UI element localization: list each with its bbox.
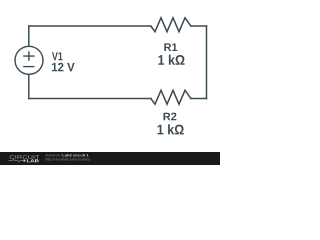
V1 plus sign bbox=[24, 52, 34, 60]
CircuitLab logo LAB text bbox=[27, 159, 39, 162]
label 12 V bbox=[52, 63, 75, 71]
footer url line bbox=[46, 158, 91, 161]
CircuitLab logo mark bbox=[23, 160, 25, 162]
wire left vertical lower (V1 bottom to bottom wire) bbox=[28, 74, 30, 98]
label R1 bbox=[164, 43, 177, 51]
label R2 value 1 kOhm bbox=[158, 124, 184, 134]
wire right vertical (R1 to R2) bbox=[206, 26, 208, 99]
wire bottom from V1 to R2 bbox=[29, 98, 151, 100]
CircuitLab logo waveform bbox=[8, 159, 23, 162]
resistor R2 bbox=[151, 90, 191, 104]
label R2 bbox=[164, 113, 177, 121]
resistor R1 bbox=[151, 18, 191, 32]
V1 minus sign bbox=[24, 66, 34, 68]
voltage source V1 circle bbox=[15, 46, 43, 74]
label R1 value 1 kOhm bbox=[158, 55, 184, 65]
wire top from V1 to R1 bbox=[29, 25, 151, 27]
label V1 bbox=[52, 52, 63, 60]
wire left vertical upper (V1 top to top wire) bbox=[28, 26, 30, 46]
wire bottom-right corner to R2 bbox=[191, 98, 207, 100]
wire R1 to top-right corner bbox=[191, 25, 207, 27]
footer bar bbox=[0, 152, 220, 165]
CircuitLab logo CIRCUIT text bbox=[10, 155, 40, 159]
footer title line bbox=[45, 154, 61, 156]
